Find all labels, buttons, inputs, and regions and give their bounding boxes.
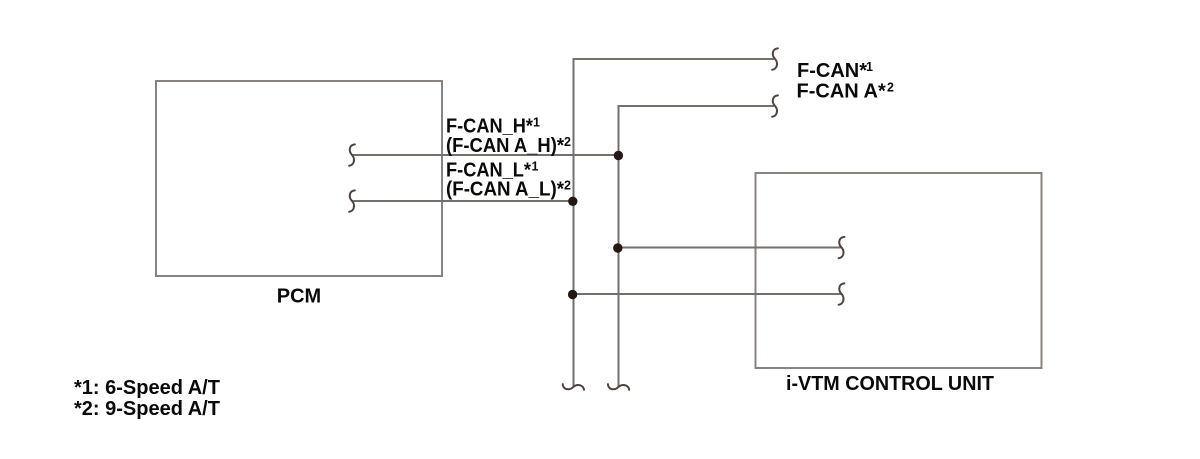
break symbol at PCM F-CAN_L pin (349, 190, 355, 211)
wire F-CAN_H from PCM to right bus (352, 154, 619, 156)
svg-text:2: 2 (564, 135, 571, 149)
svg-text:*1: 6-Speed A/T: *1: 6-Speed A/T (74, 377, 220, 399)
svg-text:(F-CAN A_H)*: (F-CAN A_H)* (446, 135, 564, 157)
junction dot at left bus / i-VTM lower wire (568, 290, 577, 299)
break symbol at left bus bottom (563, 384, 584, 390)
svg-text:i-VTM CONTROL UNIT: i-VTM CONTROL UNIT (786, 373, 994, 395)
right bus vertical wire with top branch to F-CAN A (619, 106, 775, 387)
wire from right bus to i-VTM upper pin (619, 247, 842, 249)
svg-text:*2: 9-Speed A/T: *2: 9-Speed A/T (74, 398, 220, 420)
svg-text:1: 1 (533, 116, 540, 130)
svg-text:F-CAN*: F-CAN* (797, 60, 867, 82)
PCM box (156, 81, 442, 276)
wire from left bus to i-VTM lower pin (574, 293, 842, 295)
break symbol at F-CAN A wire end (772, 95, 778, 116)
junction dot at F-CAN_H / right bus (614, 151, 623, 160)
svg-text:2: 2 (887, 81, 894, 95)
break symbol at i-VTM upper pin (839, 237, 845, 258)
svg-text:1: 1 (866, 60, 873, 74)
left bus vertical wire with top branch to F-CAN (574, 59, 775, 387)
break symbol at right bus bottom (608, 384, 629, 390)
wire F-CAN_L from PCM to left bus (352, 200, 574, 202)
svg-text:PCM: PCM (277, 286, 321, 308)
svg-text:(F-CAN A_L)*: (F-CAN A_L)* (446, 179, 564, 201)
break symbol at i-VTM lower pin (839, 283, 845, 304)
svg-text:F-CAN A*: F-CAN A* (797, 81, 886, 103)
junction dot at right bus / i-VTM upper wire (613, 243, 622, 252)
break symbol at PCM F-CAN_H pin (349, 144, 355, 165)
i-VTM CONTROL UNIT box (756, 173, 1042, 368)
svg-text:2: 2 (564, 179, 571, 193)
junction dot at F-CAN_L / left bus (568, 197, 577, 206)
break symbol at F-CAN wire end (772, 48, 778, 69)
svg-text:1: 1 (532, 160, 539, 174)
